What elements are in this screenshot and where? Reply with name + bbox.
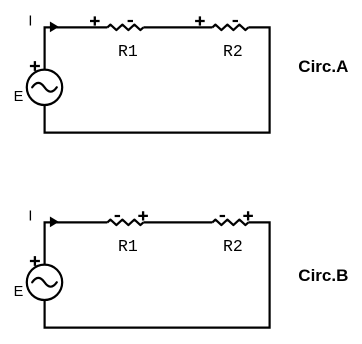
wire top-right + right side + bottom A [45,27,270,132]
polarity + left of R1 (Circ.A) [90,16,100,25]
wire top-left segment A [45,27,108,69]
svg-text:E: E [14,284,24,300]
polarity - left of R2 (Circ.B) [220,215,225,217]
polarity - right of R1 (Circ.A) [128,20,133,22]
svg-text:I: I [28,209,32,225]
voltage source E (AC, Circ.B) [27,265,62,300]
polarity + left of R2 (Circ.A) [195,16,205,25]
polarity + right of R2 (Circ.B) [243,211,253,220]
wire between R1 and R2 B [143,221,212,223]
svg-text:Circ.A: Circ.A [298,57,348,76]
svg-text:R2: R2 [223,237,243,256]
svg-text:R2: R2 [223,42,243,61]
resistor R2 (Circ.B) [212,220,248,226]
resistor R1 (Circ.A) [107,25,143,31]
polarity - right of R2 (Circ.A) [233,20,238,22]
wire top-left segment B [45,222,108,264]
resistor R1 (Circ.B) [107,220,143,226]
resistor R2 (Circ.A) [212,25,248,31]
polarity - left of R1 (Circ.B) [115,215,120,217]
svg-text:R1: R1 [118,237,138,256]
polarity + of E (Circ.B) [30,256,40,266]
svg-text:R1: R1 [118,42,138,61]
voltage source E (AC, Circ.A) [27,70,62,105]
svg-text:I: I [28,14,32,30]
svg-text:E: E [14,89,24,105]
svg-text:Circ.B: Circ.B [298,266,348,285]
current arrow (Circ.B) [50,217,59,228]
current arrow (Circ.A) [50,22,59,33]
wire top-right + right side + bottom B [45,222,270,327]
polarity + right of R1 (Circ.B) [138,211,148,220]
polarity + of E (Circ.A) [30,61,40,71]
wire between R1 and R2 A [143,26,212,28]
